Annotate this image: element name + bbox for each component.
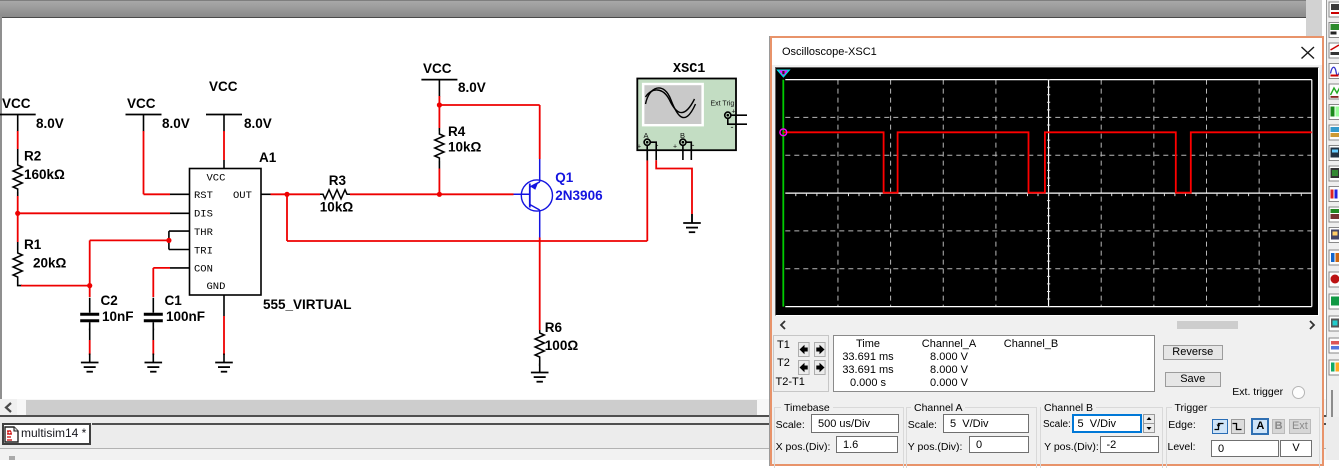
transistor Q1 2N3906 [514, 159, 604, 238]
node B junction R1/C2/THR [87, 283, 92, 288]
ground at probe A- [683, 214, 701, 232]
display scrollbar [776, 319, 1318, 331]
ground under 555 [215, 354, 233, 372]
wire OUT to R3 [287, 193, 320, 195]
XSC1 probe A pins [647, 142, 656, 160]
resistor R6 [535, 320, 578, 360]
Reverse button [1163, 345, 1223, 360]
svg-text:VCC: VCC [423, 61, 452, 76]
Ext trigger light [1232, 386, 1283, 398]
ground under C1 [145, 354, 163, 372]
node D junction VCC4/R4/emitter [437, 102, 442, 107]
scope display svg [776, 69, 1318, 316]
VCC supply V4 [421, 61, 485, 97]
wire emitter net from node D [439, 105, 539, 159]
resistor R4 [435, 124, 482, 161]
node A junction R2/R1/DIS [15, 211, 20, 216]
Trigger controls [1168, 419, 1195, 431]
wire R1 to node B [18, 280, 90, 286]
wire VCC3 to 555 VCC pin [223, 131, 225, 169]
XSC1 terminal B [673, 131, 695, 151]
Timebase controls [776, 419, 805, 431]
svg-text:C2: C2 [101, 293, 118, 308]
svg-text:RST: RST [194, 190, 213, 202]
svg-text:A1: A1 [259, 150, 277, 165]
svg-text:GND: GND [207, 281, 226, 293]
wire collector to R6 [539, 238, 541, 331]
wire node C to Q1 base [439, 193, 513, 195]
svg-text:VCC: VCC [209, 79, 238, 94]
svg-text:Q1: Q1 [555, 170, 574, 185]
oscilloscope XSC1 icon [637, 62, 736, 150]
svg-text:Ext Trig: Ext Trig [711, 101, 735, 108]
group boxes [774, 407, 904, 468]
svg-text:8.0V: 8.0V [458, 80, 486, 95]
capacitor C2 [80, 286, 133, 331]
wire R6 to ground [539, 360, 541, 366]
svg-text:10kΩ: 10kΩ [320, 200, 354, 215]
svg-text:100Ω: 100Ω [545, 338, 579, 353]
svg-text:R1: R1 [24, 237, 42, 252]
svg-text:THR: THR [194, 227, 214, 239]
resistor R1 [13, 237, 66, 280]
wire OUT node to scope probe A [287, 146, 647, 241]
XSC1 probe B pins [683, 142, 691, 160]
node THR/TRI junction [166, 238, 171, 243]
wire R3 to node C [350, 193, 439, 195]
display bezel [775, 67, 1319, 317]
resistor R2 [13, 149, 65, 193]
wire DIS net [18, 212, 190, 214]
bottom horizontal scrollbar [0, 399, 1326, 416]
tab strip [0, 417, 1339, 460]
Channel A controls [908, 419, 937, 431]
light line below tab row [0, 448, 1326, 449]
scrollbar left arrow button [0, 399, 17, 415]
dark line under scrollbar [0, 415, 1326, 417]
svg-text:555_VIRTUAL: 555_VIRTUAL [263, 297, 352, 312]
scrollbar thumb [26, 400, 757, 415]
wire OUT pin [261, 193, 287, 195]
svg-text:OUT: OUT [233, 190, 252, 202]
VCC supply V1 [0, 96, 64, 132]
svg-text:+: + [637, 144, 641, 151]
svg-text:100nF: 100nF [166, 309, 205, 324]
node C junction R3/R4/base [437, 192, 442, 197]
wire CON net [153, 267, 189, 269]
measurement readout box [833, 335, 1155, 392]
svg-text:VCC: VCC [2, 96, 31, 111]
wire 555 GND pin to ground [223, 295, 225, 355]
tab document icon [4, 426, 19, 443]
right instruments toolbar [1326, 0, 1339, 460]
ground under C2 [81, 354, 99, 372]
wire R4 to node C [438, 161, 440, 194]
svg-text:8.0V: 8.0V [36, 116, 64, 131]
active tab multisim14 [2, 423, 91, 445]
Channel B controls [1043, 419, 1071, 430]
wire VCC1 to R2 [17, 131, 19, 162]
top toolbar strip [0, 0, 1306, 18]
svg-text:DIS: DIS [194, 209, 213, 221]
canvas right scrollbar [1306, 0, 1322, 399]
VCC supply V2 [126, 96, 190, 132]
svg-text:8.0V: 8.0V [162, 116, 190, 131]
svg-text:CON: CON [194, 264, 213, 276]
wire VCC4 to node D [438, 96, 440, 128]
svg-text:R2: R2 [24, 149, 41, 164]
wire THR-TRI net [90, 231, 190, 286]
ground under R6 [531, 364, 549, 382]
svg-text:R6: R6 [545, 320, 563, 335]
tab strip top border right of tab [92, 423, 1326, 425]
svg-text:20kΩ: 20kΩ [33, 256, 67, 271]
resistor R3 [320, 173, 354, 215]
svg-text:10nF: 10nF [102, 309, 134, 324]
wire probe A- to ground [656, 160, 692, 222]
svg-text:VCC: VCC [207, 173, 226, 185]
node OUT junction [284, 192, 289, 197]
XSC1 ext trig terminal [725, 109, 747, 133]
wire RST net [144, 131, 190, 194]
svg-text:VCC: VCC [127, 96, 156, 111]
svg-text:TRI: TRI [194, 245, 213, 257]
svg-text:R3: R3 [329, 173, 347, 188]
svg-text:+: + [673, 144, 677, 151]
svg-text:C1: C1 [165, 293, 183, 308]
XSC1 terminal A [637, 131, 659, 151]
wire R2 to node A [17, 192, 19, 242]
title bar [772, 38, 1322, 65]
Save button [1165, 372, 1221, 387]
svg-text:160kΩ: 160kΩ [24, 167, 65, 182]
svg-text:XSC1: XSC1 [673, 62, 705, 77]
svg-text:10kΩ: 10kΩ [448, 140, 482, 155]
wire C2 to ground [89, 329, 91, 356]
canvas left border [0, 16, 2, 416]
svg-text:R4: R4 [448, 124, 466, 139]
op-amp/timer U1 555_VIRTUAL box [190, 169, 262, 296]
svg-text:2N3906: 2N3906 [555, 188, 603, 203]
capacitor C1 [144, 268, 205, 330]
wire C1 to ground [152, 329, 154, 356]
svg-text:8.0V: 8.0V [244, 116, 272, 131]
VCC supply V3 above 555 [206, 79, 272, 132]
T cursor box [773, 335, 830, 392]
